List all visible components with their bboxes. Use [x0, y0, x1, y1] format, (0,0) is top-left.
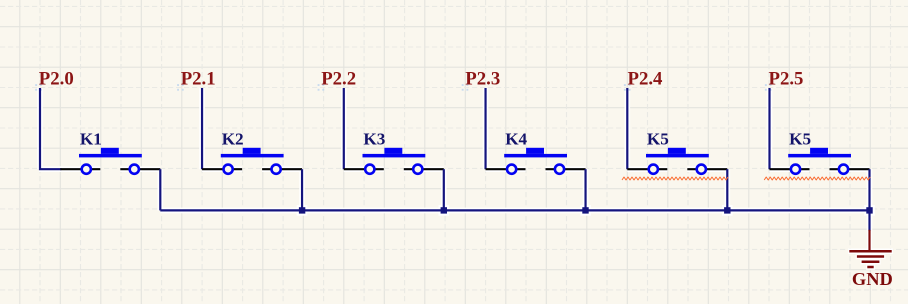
net label P2.2 — [318, 84, 325, 91]
wire P2.0 to K1 pin 1 — [40, 88, 61, 169]
bus wire to GND — [160, 209, 869, 211]
pin 2 of K5 — [687, 165, 727, 174]
wire P2.2 to K3 pin 1 — [343, 88, 345, 169]
junction node at x=444 — [441, 207, 447, 213]
net label P2.3 — [462, 84, 469, 91]
junction node at x=727 — [724, 207, 730, 213]
pin 2 of K2 — [262, 165, 302, 174]
svg-text:K2: K2 — [222, 130, 244, 149]
svg-text:P2.1: P2.1 — [181, 68, 216, 89]
svg-text:P2.2: P2.2 — [321, 68, 356, 89]
pin 2 of K1 — [120, 165, 160, 174]
wire K2 pin 2 down to GND bus — [301, 169, 303, 210]
pin 1 of K3 — [344, 165, 384, 174]
svg-text:P2.5: P2.5 — [769, 68, 804, 89]
wire P2.5 to K5 pin 1 — [768, 88, 770, 169]
svg-text:P2.4: P2.4 — [628, 68, 664, 89]
pin 2 of K3 — [404, 165, 444, 174]
wire bus to ground — [868, 210, 870, 230]
push button K4 body — [504, 148, 567, 158]
pin 1 of K5 — [627, 165, 667, 174]
junction node at x=870 — [866, 207, 872, 213]
push button K2 body — [221, 148, 284, 158]
svg-text:P2.3: P2.3 — [465, 68, 500, 89]
wire K3 pin 2 down to GND bus — [443, 169, 445, 210]
net label P2.1 — [177, 84, 184, 91]
wire P2.3 to K4 pin 1 — [484, 88, 486, 169]
svg-text:K4: K4 — [505, 130, 527, 149]
pin 2 of K4 — [546, 165, 586, 174]
junction node at x=586 — [582, 207, 588, 213]
net label P2.5 — [765, 84, 772, 91]
pin 1 of K5b — [770, 165, 810, 174]
wire P2.4 to K5 pin 1 — [626, 88, 628, 169]
wire K1 pin 2 down to GND bus — [159, 169, 161, 210]
junction node at x=302 — [299, 207, 305, 213]
svg-text:K1: K1 — [80, 130, 102, 149]
wire K5b pin 2 down to GND bus — [868, 169, 870, 210]
push button K1 body — [79, 148, 142, 158]
push button K5 body — [646, 148, 709, 158]
pin 1 of K4 — [486, 165, 526, 174]
net label P2.4 — [624, 84, 631, 91]
svg-text:K5: K5 — [647, 130, 669, 149]
net label P2.0 — [35, 84, 42, 91]
wire P2.1 to K2 pin 1 — [201, 88, 203, 169]
push button K3 body — [363, 148, 426, 158]
svg-text:K5: K5 — [789, 130, 811, 149]
svg-text:K3: K3 — [363, 130, 385, 149]
push button K5b body — [788, 148, 851, 158]
pin 1 of K2 — [202, 165, 242, 174]
pin 1 of K1 — [60, 165, 100, 174]
svg-text:GND: GND — [852, 269, 893, 289]
wire K5 pin 2 down to GND bus — [726, 169, 728, 210]
ground power port — [849, 230, 891, 267]
svg-text:P2.0: P2.0 — [39, 68, 74, 89]
error squiggle under K5b — [764, 177, 870, 180]
error squiggle under K5 — [622, 177, 728, 180]
wire K4 pin 2 down to GND bus — [584, 169, 586, 210]
pin 2 of K5b — [830, 165, 870, 174]
